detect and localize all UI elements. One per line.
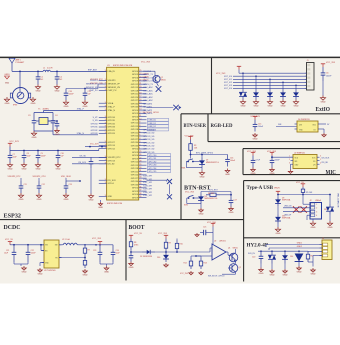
- svg-text:GND: GND: [5, 103, 10, 105]
- svg-text:XTAL_N: XTAL_N: [108, 109, 116, 112]
- wire VDD3P3 decoupling rail: [66, 88, 98, 90]
- svg-text:SENSOR_VN: SENSOR_VN: [108, 87, 121, 89]
- resistor R8 feedback bottom: [84, 258, 86, 261]
- svg-text:GPIO33: GPIO33: [131, 145, 139, 147]
- svg-text:GPIO24: GPIO24: [131, 97, 139, 99]
- svg-text:EXT_IO2: EXT_IO2: [224, 82, 232, 84]
- svg-text:9: 9: [105, 129, 106, 131]
- svg-text:GPIO12: GPIO12: [131, 84, 139, 86]
- svg-text:GND: GND: [89, 200, 94, 202]
- svg-text:VCC_3V3: VCC_3V3: [180, 273, 188, 275]
- svg-text:R4 10K: R4 10K: [208, 193, 215, 195]
- svg-text:C25: C25: [203, 227, 206, 229]
- svg-text:IO16_ADC: IO16_ADC: [143, 99, 153, 102]
- capacitor C15 RGB: [254, 120, 256, 125]
- svg-text:GND: GND: [19, 199, 24, 201]
- svg-text:I2S_SD: I2S_SD: [108, 164, 115, 166]
- svg-text:GPIO33: GPIO33: [91, 133, 98, 135]
- svg-text:C20: C20: [252, 257, 255, 259]
- ground under C9: [37, 163, 39, 165]
- wire USB GND pin: [307, 214, 310, 216]
- svg-text:GND: GND: [321, 102, 326, 104]
- svg-text:GPIO2_TX: GPIO2_TX: [143, 77, 153, 79]
- pushbutton SW1 BTN-USER: [190, 155, 192, 159]
- wire MIC VDD rail: [272, 156, 293, 158]
- svg-text:VDDA: VDDA: [108, 102, 114, 105]
- right pin boxed labels group B: [148, 154, 171, 157]
- svg-text:VDD3P3_RTC: VDD3P3_RTC: [8, 176, 22, 178]
- capacitor C20 HY2: [260, 251, 262, 256]
- ground under C19: [84, 100, 86, 102]
- svg-text:SENSOR_VP: SENSOR_VP: [86, 84, 98, 86]
- svg-text:R7: R7: [88, 250, 90, 252]
- ground RGB driver: [321, 128, 324, 130]
- zener diode D8 BTN-RST: [195, 197, 201, 199]
- transistor Q3 strapping: [153, 75, 160, 82]
- svg-text:GPIO33: GPIO33: [131, 107, 139, 109]
- svg-text:C13: C13: [69, 184, 72, 186]
- svg-text:CHIP_PU: CHIP_PU: [108, 90, 117, 92]
- svg-text:MMSZ4689T1G: MMSZ4689T1G: [205, 198, 218, 200]
- net arrow at border: [179, 106, 181, 109]
- wire to transistor Q3: [147, 70, 156, 72]
- svg-text:GND: GND: [98, 207, 103, 209]
- svg-text:GPIO34: GPIO34: [91, 123, 98, 125]
- svg-text:MIC: MIC: [326, 170, 337, 176]
- ground under D5: [295, 100, 297, 102]
- test point cross TP1: [156, 86, 162, 92]
- svg-text:C4: C4: [55, 115, 57, 117]
- ground under D12: [271, 264, 273, 270]
- capacitor C21 DCDC in: [13, 245, 15, 253]
- node BTN-USER junction: [190, 154, 192, 156]
- svg-text:9: 9: [105, 79, 106, 81]
- svg-text:USB-A: USB-A: [315, 199, 322, 202]
- svg-text:2: 2: [289, 159, 290, 161]
- svg-text:GND: GND: [253, 138, 258, 140]
- svg-text:XTAL_N: XTAL_N: [77, 132, 85, 135]
- svg-text:11: 11: [139, 115, 141, 117]
- ESP32 U1 right pin wires and numbers: [139, 70, 147, 72]
- node BOOT left: [130, 250, 132, 252]
- svg-text:38: 38: [139, 193, 141, 195]
- svg-text:GND: GND: [36, 91, 41, 93]
- svg-text:MMSZ4689T1G: MMSZ4689T1G: [206, 162, 219, 164]
- svg-text:GPIO3: GPIO3: [132, 74, 139, 76]
- svg-text:GND: GND: [200, 177, 205, 179]
- svg-text:SMF5V0A: SMF5V0A: [282, 217, 291, 220]
- svg-text:IO29_SPI: IO29_SPI: [143, 189, 152, 191]
- svg-text:IO30_SPI: IO30_SPI: [143, 192, 152, 194]
- svg-text:GPIO30: GPIO30: [131, 181, 139, 183]
- capacitor C2 RF: [56, 71, 58, 76]
- svg-text:RGB-LED: RGB-LED: [211, 123, 233, 129]
- svg-text:XTAL_P: XTAL_P: [77, 108, 85, 111]
- svg-text:GPIO21: GPIO21: [131, 94, 139, 96]
- svg-text:VBUS: VBUS: [274, 187, 280, 189]
- svg-text:SD_DAT0: SD_DAT0: [143, 102, 153, 105]
- ground under D13: [284, 264, 286, 270]
- svg-text:L2 2.2uH: L2 2.2uH: [62, 239, 70, 241]
- LED driver D6 WS2812B: [297, 121, 318, 132]
- svg-text:GPIO35: GPIO35: [91, 127, 98, 129]
- resistor R9 BOOT: [130, 239, 132, 242]
- ground under C16: [227, 169, 229, 171]
- svg-text:ESP32-WROOM: ESP32-WROOM: [107, 203, 122, 205]
- svg-text:GPIO24: GPIO24: [131, 175, 139, 177]
- svg-text:GPIO0: GPIO0: [132, 149, 139, 151]
- svg-text:VDD3P3_CPU: VDD3P3_CPU: [32, 176, 46, 178]
- svg-text:XTAL_P: XTAL_P: [108, 106, 116, 109]
- svg-text:VCC_3V3: VCC_3V3: [216, 73, 226, 75]
- svg-text:CHIP_PU: CHIP_PU: [89, 90, 98, 92]
- svg-text:GPIO33: GPIO33: [131, 184, 139, 186]
- svg-text:1: 1: [316, 204, 317, 206]
- svg-text:Q2: Q2: [239, 267, 241, 269]
- wire U3 EN tie: [41, 250, 44, 252]
- capacitor C9: [37, 151, 39, 156]
- svg-text:SW2: SW2: [184, 205, 188, 207]
- diode D13 HY2: [284, 251, 286, 256]
- power flag GND left of antenna: [5, 76, 10, 79]
- wire DCDC input rail: [10, 244, 44, 246]
- resistor R6 HY2: [307, 251, 309, 254]
- ground crystal: [33, 131, 35, 133]
- USB-A connector J2: [310, 203, 322, 220]
- svg-text:C3: C3: [28, 115, 30, 117]
- svg-text:GPIO28_SD: GPIO28_SD: [143, 152, 155, 154]
- svg-text:GND: GND: [31, 103, 36, 105]
- svg-text:J2: J2: [310, 200, 312, 202]
- svg-text:GPIO9: GPIO9: [132, 120, 139, 122]
- svg-text:Q1: Q1: [228, 248, 230, 250]
- wire RGB VDD right: [321, 123, 326, 125]
- svg-text:19: 19: [139, 89, 141, 91]
- wire opamp minus input: [196, 255, 212, 257]
- diode D5 ExtIO: [295, 85, 297, 89]
- svg-text:U3 TLV62569: U3 TLV62569: [44, 270, 56, 272]
- ground HY2 connector: [312, 262, 314, 267]
- svg-text:25: 25: [139, 151, 141, 153]
- svg-text:BTN-USER: BTN-USER: [184, 123, 207, 129]
- ExtIO bus wires: [239, 72, 307, 74]
- capacitor C22 DCDC in: [27, 245, 29, 253]
- svg-text:IPEX: IPEX: [13, 105, 18, 107]
- svg-text:100nF: 100nF: [41, 156, 47, 158]
- border BTN-USER / RGB-LED divider: [207, 114, 209, 142]
- buck regulator U3: [44, 240, 59, 268]
- wire BTN-RST net: [200, 192, 202, 194]
- svg-text:GPIO3: GPIO3: [132, 191, 139, 193]
- svg-text:9: 9: [105, 195, 106, 197]
- svg-text:SD_DAT1: SD_DAT1: [143, 106, 153, 109]
- ground under C21 C22: [13, 262, 15, 264]
- svg-text:PCB-ANT: PCB-ANT: [16, 61, 26, 64]
- svg-text:GPIO12: GPIO12: [131, 123, 139, 125]
- svg-text:9: 9: [105, 141, 106, 143]
- svg-text:GND: GND: [64, 199, 69, 201]
- capacitor C6 EN: [90, 157, 92, 161]
- svg-text:J1: J1: [307, 60, 309, 62]
- TVS diode D14 HY2 large: [298, 251, 300, 252]
- svg-text:GPIO6: GPIO6: [132, 116, 139, 118]
- svg-text:2: 2: [139, 144, 140, 146]
- svg-text:S8050: S8050: [161, 80, 166, 82]
- svg-text:VCC_3V3: VCC_3V3: [326, 62, 336, 64]
- capacitor C4 crystal right: [52, 113, 54, 121]
- svg-text:GPIO18: GPIO18: [131, 168, 139, 170]
- svg-text:R10: R10: [180, 244, 183, 246]
- ground under C13: [65, 193, 67, 195]
- svg-text:8: 8: [139, 125, 140, 127]
- svg-text:S_VP: S_VP: [93, 117, 99, 119]
- wire ExtIO power drop: [238, 70, 240, 74]
- svg-text:GPIO21_SD: GPIO21_SD: [143, 129, 155, 131]
- ground under ESP32 GND pin: [100, 200, 102, 202]
- ExtIO bus junction dots: [242, 72, 244, 74]
- svg-text:C11: C11: [24, 184, 27, 186]
- wire C6 down: [90, 168, 92, 194]
- svg-text:GPIO23_SD: GPIO23_SD: [143, 136, 155, 138]
- ground under C11: [20, 193, 22, 195]
- capacitor C8: [23, 151, 25, 156]
- wire FB node: [84, 257, 86, 259]
- svg-text:GND2: GND2: [297, 246, 302, 248]
- svg-text:LNA_IN: LNA_IN: [108, 70, 116, 73]
- ESP32 U1 left pin wires: [99, 70, 107, 72]
- ground under D3: [269, 100, 271, 102]
- svg-text:VCC_5V: VCC_5V: [5, 239, 13, 241]
- svg-text:32: 32: [139, 173, 141, 175]
- border MIC top: [243, 148, 340, 150]
- capacitor C23 DCDC out: [99, 245, 101, 253]
- capacitor C13: [65, 178, 67, 181]
- wire rail row A: [9, 147, 11, 151]
- resistor R12 divider: [190, 256, 192, 258]
- ground under D2: [255, 100, 257, 102]
- border ExtIO left: [211, 57, 213, 113]
- ground left of C25: [196, 233, 198, 235]
- svg-text:29: 29: [139, 164, 141, 166]
- svg-text:GPIO12: GPIO12: [131, 162, 139, 164]
- test point cross TP4: [167, 194, 172, 199]
- svg-text:2.0nH: 2.0nH: [47, 68, 53, 70]
- svg-text:GND: GND: [199, 213, 204, 215]
- svg-text:BTN_USER_GPIO0: BTN_USER_GPIO0: [196, 152, 213, 154]
- svg-text:31: 31: [139, 170, 141, 172]
- ground under C18: [252, 168, 254, 170]
- svg-text:GND: GND: [270, 274, 275, 276]
- svg-text:SYS_RST: SYS_RST: [209, 189, 218, 191]
- svg-text:GPIO35: GPIO35: [108, 120, 116, 122]
- svg-text:GPIO26_SD: GPIO26_SD: [143, 146, 155, 148]
- no-connect cross marks USB data: [293, 206, 299, 212]
- wire D9 to D10: [277, 206, 279, 215]
- svg-text:GND: GND: [281, 106, 286, 108]
- svg-text:D6 WS2812B: D6 WS2812B: [298, 119, 310, 121]
- svg-text:GPIO27: GPIO27: [108, 142, 116, 144]
- ground under C19: [271, 168, 273, 170]
- diode D10 USB clamp2: [277, 215, 279, 218]
- wire RGB DIN: [276, 126, 297, 128]
- capacitor C25 BOOT top: [206, 232, 208, 234]
- svg-text:J3: J3: [322, 238, 324, 240]
- resistor R10 BOOT: [165, 239, 167, 243]
- capacitor C19 MIC: [271, 156, 273, 161]
- power flag VCC_3V3 ExtIO: [238, 66, 240, 69]
- svg-text:28: 28: [139, 161, 141, 163]
- svg-text:GND: GND: [129, 267, 134, 269]
- ground under C6: [90, 194, 92, 196]
- svg-text:4: 4: [139, 138, 140, 140]
- svg-text:IO13_ADC: IO13_ADC: [143, 89, 153, 92]
- svg-text:DCDC: DCDC: [4, 225, 21, 231]
- svg-text:R13: R13: [204, 263, 207, 265]
- svg-text:BOOT: BOOT: [129, 225, 145, 231]
- svg-text:GPIO22_SD: GPIO22_SD: [143, 133, 155, 135]
- diode D3 ExtIO: [269, 79, 271, 89]
- wire USB D+ to connector: [283, 211, 310, 213]
- wire xtal link: [48, 120, 57, 122]
- svg-text:R9: R9: [169, 243, 171, 245]
- svg-text:R12: R12: [184, 263, 187, 265]
- wire Q1 collector emitter: [235, 249, 237, 253]
- wire VBUS rail: [278, 194, 330, 196]
- svg-text:9: 9: [105, 109, 106, 111]
- svg-text:SW1: SW1: [182, 168, 186, 170]
- svg-text:GND: GND: [8, 169, 13, 171]
- ground under C20: [260, 264, 262, 268]
- diode D15 BOOT: [142, 251, 147, 253]
- svg-text:GPIO3: GPIO3: [132, 113, 139, 115]
- svg-text:C12: C12: [42, 184, 45, 186]
- svg-text:IO31_SPI: IO31_SPI: [143, 195, 152, 197]
- ground under R12: [190, 271, 192, 273]
- zener diode D16 BOOT: [165, 252, 167, 255]
- svg-text:9: 9: [105, 119, 106, 121]
- ground under C15: [254, 133, 256, 135]
- svg-text:9: 9: [105, 144, 106, 146]
- capacitor C26 BOOT left: [130, 252, 132, 256]
- svg-text:GPIO21: GPIO21: [131, 132, 139, 134]
- svg-text:100nF: 100nF: [326, 75, 332, 77]
- border RGB-LED bottom: [208, 141, 340, 143]
- svg-text:9: 9: [105, 83, 106, 85]
- inductor L1: [43, 70, 51, 71]
- svg-text:GND: GND: [64, 106, 69, 108]
- svg-text:D11: D11: [324, 209, 327, 211]
- svg-text:GPIO33: GPIO33: [108, 127, 116, 129]
- wire ESP32 EN pull rail: [85, 146, 107, 148]
- svg-text:GND1: GND1: [4, 74, 9, 76]
- svg-text:LMV321: LMV321: [219, 241, 226, 243]
- ground under C10: [57, 163, 59, 165]
- wire HY2 5V to connector: [307, 250, 309, 252]
- svg-text:GND: GND: [297, 271, 302, 273]
- capacitor C10: [57, 151, 59, 156]
- svg-text:VDD_SDIO: VDD_SDIO: [61, 176, 72, 178]
- svg-text:GPIO6: GPIO6: [132, 155, 139, 157]
- ground under C18: [65, 100, 67, 102]
- svg-text:GND: GND: [251, 173, 256, 175]
- svg-text:USB_CONN_SH: USB_CONN_SH: [337, 193, 339, 208]
- svg-text:100nF: 100nF: [31, 252, 37, 254]
- svg-text:GND: GND: [311, 273, 316, 275]
- ground left of IPEX: [6, 97, 8, 99]
- svg-text:37: 37: [139, 190, 141, 192]
- diode D2 ExtIO: [255, 76, 257, 89]
- ground under D16: [165, 263, 167, 265]
- wire opamp supply: [212, 227, 214, 245]
- svg-text:9: 9: [105, 102, 106, 104]
- svg-text:GND1: GND1: [297, 243, 302, 245]
- svg-text:GPIO18: GPIO18: [131, 90, 139, 92]
- svg-text:Type-A USB: Type-A USB: [247, 185, 274, 191]
- svg-text:GPIO0: GPIO0: [132, 188, 139, 190]
- svg-text:GPIO15: GPIO15: [131, 87, 139, 89]
- svg-text:3: 3: [289, 163, 290, 165]
- svg-text:21: 21: [139, 83, 141, 85]
- svg-text:GPIO30: GPIO30: [131, 142, 139, 144]
- svg-text:VCC_3V3: VCC_3V3: [90, 144, 98, 146]
- svg-text:GPIO27: GPIO27: [131, 100, 139, 102]
- connector J3 HY2.0-4P: [322, 240, 332, 260]
- svg-text:GPIO9: GPIO9: [132, 158, 139, 160]
- svg-text:GPIO9: GPIO9: [132, 197, 139, 199]
- ground right of IPEX: [32, 97, 34, 99]
- svg-text:14: 14: [139, 105, 141, 107]
- svg-text:GPIO13: GPIO13: [108, 160, 116, 162]
- svg-text:SMF5V0A: SMF5V0A: [282, 199, 291, 202]
- svg-text:1: 1: [289, 156, 290, 158]
- border right column left: [243, 181, 245, 282]
- svg-text:9: 9: [105, 179, 106, 181]
- wire divider tie: [191, 255, 201, 257]
- border MIC bottom: [243, 174, 340, 176]
- ground under C14: [322, 96, 324, 98]
- svg-text:GND: GND: [104, 271, 109, 273]
- svg-text:SENSOR_VP: SENSOR_VP: [108, 84, 121, 86]
- svg-text:U2 INMP441: U2 INMP441: [294, 152, 305, 154]
- transistor Q1 BOOT: [229, 253, 238, 262]
- svg-text:15: 15: [139, 102, 141, 104]
- wire D7 top to net: [201, 155, 203, 158]
- svg-text:EXT_IO0: EXT_IO0: [224, 76, 232, 78]
- svg-text:SW_BOOT_GPIO0: SW_BOOT_GPIO0: [208, 275, 224, 277]
- capacitor C5 near crystal: [56, 121, 58, 124]
- ground under R13: [200, 271, 202, 273]
- diode D9 USB vbus clamp: [277, 195, 279, 198]
- svg-text:GND: GND: [37, 199, 42, 201]
- svg-text:26: 26: [139, 154, 141, 156]
- svg-text:ESP_ANT: ESP_ANT: [88, 69, 98, 72]
- svg-text:VDD3P3: VDD3P3: [90, 80, 97, 82]
- svg-text:GND: GND: [229, 212, 234, 214]
- svg-text:IO14_ADC: IO14_ADC: [143, 93, 153, 96]
- svg-text:GND: GND: [38, 273, 43, 275]
- wire USB D- to connector: [283, 207, 310, 209]
- wire VBUS down to connector pin: [302, 195, 304, 205]
- op-amp U4 comparator: [212, 244, 226, 260]
- node RF junction 1: [37, 71, 39, 73]
- svg-text:9: 9: [105, 132, 106, 134]
- svg-text:3: 3: [316, 211, 317, 213]
- ground under C17: [230, 207, 232, 209]
- svg-text:13: 13: [139, 109, 141, 111]
- svg-text:GND: GND: [225, 174, 230, 176]
- svg-text:VCC_3V3: VCC_3V3: [9, 141, 19, 143]
- power flag VCC_3V3 RGB: [254, 116, 256, 119]
